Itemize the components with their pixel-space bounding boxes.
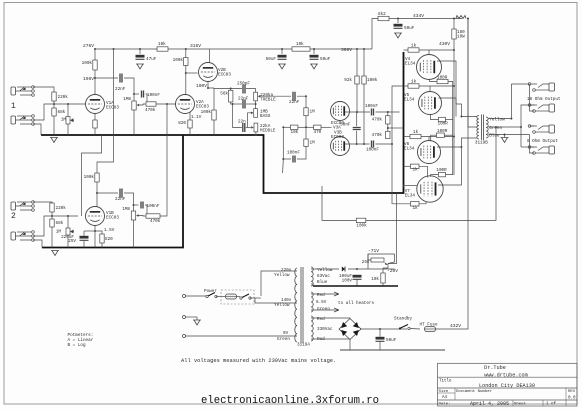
svg-text:470k: 470k (150, 219, 161, 224)
svg-text:25V: 25V (68, 239, 76, 244)
wire V6 cathode (431, 135, 437, 140)
svg-text:25k: 25k (362, 260, 370, 265)
wire screen to 1k V4 (419, 50, 429, 55)
wire ch2 grid to V1B (52, 215, 78, 217)
wire V2B out to tone stack (214, 88, 242, 90)
resistor 220k (52, 92, 68, 101)
wire rail 368V section (310, 48, 372, 50)
resistor 1M8 volume ch1 (123, 97, 136, 110)
wire 100k V2B to bus (213, 120, 215, 135)
svg-text:100V: 100V (196, 83, 207, 89)
wire 1k V4 right (429, 49, 454, 51)
wire 368V riser to 8k2 (372, 19, 378, 50)
resistor 1k V6 (410, 130, 421, 139)
wire 470 to V3 grid (321, 126, 332, 128)
wire 820 to bus (189, 128, 191, 135)
wire 10k bias to bus (382, 283, 384, 286)
wire V5 grid drive (392, 86, 408, 144)
svg-text:B = Log: B = Log (68, 343, 86, 348)
svg-text:10k: 10k (371, 277, 379, 282)
wire V1A plate resistor feed (94, 49, 96, 60)
wire 100R V6 return (444, 134, 452, 136)
wire 100nF to 470k ch1 (146, 94, 148, 104)
svg-text:Sheet: Sheet (514, 402, 526, 407)
wire 50uF cap feed a (281, 49, 283, 54)
wire V2B grid (186, 72, 198, 74)
svg-text:50nF: 50nF (340, 123, 351, 128)
bridge rectifier D1-D4 (339, 319, 361, 340)
wire V2A plate up (185, 66, 187, 95)
svg-text:www.drtube.com: www.drtube.com (484, 372, 528, 378)
svg-text:Green: Green (317, 307, 330, 312)
resistor 470k grid upper (372, 116, 390, 124)
pot 22kA MIDDLE (251, 123, 276, 133)
svg-text:1M: 1M (61, 118, 67, 123)
capacitor 100nF coupler lower (366, 141, 379, 153)
wire ch2 B+ drop (97, 49, 114, 173)
wire 100k drop (363, 49, 365, 76)
resistor 56k (220, 90, 233, 102)
wire bass wiper link (248, 113, 252, 128)
resistor 1k V5 (408, 80, 419, 89)
pot 1M grid (61, 117, 74, 125)
wire 100nF PI left (283, 158, 291, 160)
svg-text:220k: 220k (56, 206, 67, 211)
svg-text:1M8: 1M8 (122, 207, 130, 212)
wire 1M pot to bus (67, 124, 69, 135)
svg-text:10k: 10k (296, 42, 304, 47)
fuse mains (226, 294, 237, 299)
resistor 100R V7 (436, 168, 447, 177)
wire 25k left (368, 254, 371, 260)
wire HT 434V to 180R (453, 19, 455, 30)
capacitor 22nF ch1 (115, 74, 126, 93)
pot 1MB BASS (251, 109, 271, 119)
wire 1k V5 right (430, 85, 454, 87)
wire treble wiper to 22nF PI (260, 95, 291, 97)
svg-text:63Vac: 63Vac (317, 274, 330, 279)
svg-text:1M: 1M (310, 110, 316, 115)
svg-text:100k: 100k (201, 110, 212, 115)
wire 434V rail (389, 18, 462, 20)
wire V7 plate to OT (438, 147, 461, 185)
svg-text:1 of: 1 of (546, 402, 557, 407)
svg-text:100R: 100R (437, 129, 448, 134)
svg-text:432V: 432V (450, 323, 461, 329)
wire 22nF bass left (233, 103, 242, 105)
wire B+ rail 276V to 316V (95, 48, 157, 50)
svg-text:Standby: Standby (394, 317, 412, 322)
wire 10k bias wiring (382, 268, 384, 273)
svg-text:220k: 220k (58, 95, 69, 100)
svg-text:Yellow: Yellow (489, 117, 505, 122)
title block (438, 363, 578, 406)
pot 220kA TREBLE (254, 92, 276, 102)
capacitor 50uF (266, 55, 287, 62)
wire screen to 1k V6 (421, 137, 429, 141)
wire bridge out (360, 328, 407, 330)
wire treble bottom (255, 101, 257, 109)
svg-text:1k: 1k (413, 130, 419, 135)
wire grid V6 left (404, 136, 411, 138)
triode V1A ECC83 (86, 95, 105, 114)
wire ch1 jack sleeve to ground (33, 124, 41, 135)
mains terminal neutral (183, 335, 186, 338)
wire cathode node ch2 (84, 230, 95, 232)
pentode V6 EL34 (418, 141, 441, 164)
svg-text:316V: 316V (190, 43, 201, 49)
svg-text:100nF: 100nF (365, 104, 378, 109)
resistor 100k plate ch2 (84, 173, 100, 182)
capacitor 100uF bias (353, 275, 362, 280)
wire 820 ch2 wiring (95, 231, 102, 234)
pentode V7 EL34 (417, 176, 443, 202)
svg-text:8k2: 8k2 (378, 12, 386, 17)
wire jack link b (520, 127, 522, 147)
svg-text:68k: 68k (58, 110, 66, 115)
svg-text:1.1V: 1.1V (191, 115, 202, 120)
wire V4 cathode (430, 80, 438, 82)
svg-text:100nF: 100nF (287, 151, 300, 156)
svg-text:ECC83: ECC83 (331, 135, 344, 140)
capacitor 47uF (136, 55, 157, 62)
speaker jack 8 ohm a (528, 125, 554, 134)
svg-text:to all heaters: to all heaters (338, 301, 375, 306)
wire 470k upper stub (387, 112, 389, 116)
wire 63Vac bottom to bus (311, 284, 313, 286)
svg-text:EL34: EL34 (405, 194, 416, 199)
wire 22nF bass right (246, 103, 256, 105)
choke L1 (456, 16, 466, 19)
wire ch1 jack tips (33, 87, 54, 92)
capacitor 22n middle (238, 120, 246, 133)
fuse HT (425, 327, 436, 332)
wire 50uF HT wiring (379, 329, 381, 337)
svg-text:10W: 10W (457, 35, 465, 40)
resistor 92k (344, 76, 359, 84)
pot 1M ch2 (56, 228, 74, 235)
wire V7 cathode (431, 175, 439, 177)
svg-text:10k: 10k (291, 130, 299, 135)
resistor 10k bias (371, 273, 385, 283)
wire 100k ch2 to plate node (96, 182, 98, 207)
wire 100R V5 return (446, 119, 453, 121)
svg-text:100R: 100R (436, 168, 447, 173)
wire 470k midpoint to bus (388, 127, 404, 129)
ground bus channel 2 (42, 135, 183, 248)
triode V3B ECC83 (331, 137, 350, 156)
svg-text:8 Ohm Output: 8 Ohm Output (527, 139, 558, 144)
wire HT ground line (340, 349, 445, 351)
svg-text:470k: 470k (145, 108, 156, 113)
wire 220uF wiring (83, 231, 85, 236)
pentode V4 EL34 (417, 55, 442, 80)
svg-text:1M: 1M (310, 141, 316, 146)
wire rail 316V section (168, 48, 292, 50)
speaker jack 16 ohm b (528, 104, 554, 113)
svg-text:1.5V: 1.5V (104, 228, 115, 233)
wire tail down (282, 159, 285, 173)
wire volume wiper ch1 (139, 104, 146, 105)
wire secondary blue (489, 134, 530, 136)
wire 0V tap (184, 335, 297, 337)
wire pot to bus ch2 (67, 235, 69, 248)
wire 50nF bottom link (356, 131, 358, 144)
ground (278, 64, 286, 69)
resistor 470k ch2 (146, 214, 161, 224)
svg-text:1k: 1k (411, 80, 417, 85)
diode bias (342, 266, 345, 271)
resistor 100R V4 (437, 76, 448, 84)
svg-text:A4: A4 (442, 396, 448, 400)
wire 1M lower to 100nF (297, 146, 306, 159)
resistor 100k plate V2B (173, 58, 188, 66)
resistor 100k NFB (356, 218, 367, 228)
svg-text:100nF: 100nF (147, 93, 160, 98)
T2 secondary 6.5V winding (311, 292, 313, 312)
wire 25k to -20V (383, 264, 388, 269)
wire 92k to V3A plate node (356, 84, 358, 112)
svg-text:22nF: 22nF (115, 197, 126, 202)
wire V1B cathode (94, 226, 96, 248)
svg-text:16 Ohm Output: 16 Ohm Output (527, 97, 561, 102)
output transformer T1 secondary (486, 117, 488, 138)
svg-text:1: 1 (11, 102, 16, 111)
wire bridge neg to ground line (349, 339, 351, 350)
wire V3A plate (345, 111, 370, 113)
resistor 1k V7 grid (411, 202, 420, 211)
resistor 1M PI lower (304, 139, 315, 146)
resistor 1k V4 (408, 44, 419, 53)
svg-text:Power: Power (204, 289, 217, 294)
svg-text:EL34: EL34 (404, 98, 415, 103)
svg-text:0V: 0V (283, 331, 289, 336)
wire jack common b (521, 146, 534, 148)
switch mains 2 (240, 294, 251, 299)
resistor 1k V7 screen (411, 164, 420, 173)
wire 140V tap (255, 298, 297, 303)
wire 92k drop (356, 49, 358, 76)
svg-text:22nF: 22nF (289, 100, 300, 105)
wire 50uF HT gnd (379, 342, 381, 350)
wire V3B plate (345, 143, 370, 145)
svg-text:Title: Title (439, 379, 452, 384)
wire V6 plate to OT (437, 138, 477, 147)
pot wiper ch2 (136, 214, 139, 217)
wire V4 plate to OT (437, 61, 477, 117)
wire 56k top (230, 89, 232, 91)
svg-text:100k: 100k (173, 58, 184, 63)
triode V2B ECC83 (199, 63, 218, 82)
speaker jack 16 ohm a (528, 83, 554, 92)
wire standby to fuse (410, 328, 420, 331)
svg-text:1M8: 1M8 (123, 97, 131, 102)
svg-text:Red: Red (317, 337, 325, 342)
wire ch2 coupling (97, 192, 118, 194)
svg-text:100k: 100k (367, 78, 378, 83)
resistor 100R V6 (437, 129, 448, 137)
wire jack common a (521, 105, 534, 127)
ground (310, 64, 318, 69)
svg-text:430V: 430V (439, 41, 450, 47)
svg-text:Document Number: Document Number (456, 389, 493, 394)
svg-text:47uF: 47uF (146, 57, 157, 62)
resistor 1M PI upper (304, 108, 315, 116)
svg-text:-71V: -71V (368, 248, 379, 254)
wire ch2 jack2 to grid (33, 216, 52, 236)
wire jack link c (530, 135, 535, 154)
svg-text:0.0: 0.0 (568, 397, 576, 401)
resistor 1M8 volume ch2 (122, 207, 135, 220)
capacitor 250pF (237, 82, 250, 94)
wire ch2 grid node (51, 212, 53, 219)
wire OT center tap (468, 19, 477, 128)
triode V1B ECC83 (86, 207, 105, 226)
pot wiper ch1 (137, 104, 140, 107)
capacitor 22nF PI (289, 92, 300, 105)
wire earth drop (186, 316, 198, 318)
wire 100uF to bus (356, 280, 358, 287)
wire 8 ohm feed (530, 125, 535, 127)
wire heater arrows (311, 292, 339, 312)
wire screen bus (453, 39, 455, 175)
wire grid node to 100nF ch2 (134, 204, 139, 206)
svg-text:1M: 1M (56, 230, 62, 235)
resistor 470k ch1 (145, 102, 156, 113)
wire switch2 to primary (250, 297, 255, 299)
wire middle pot to bus (255, 132, 257, 135)
ground (51, 251, 59, 256)
svg-text:68k: 68k (56, 221, 64, 226)
wire pot to grid ch2 (67, 216, 69, 228)
wire ch1 68k to bus (53, 116, 55, 135)
wire ch1 grid node (53, 101, 55, 108)
svg-text:Yellow: Yellow (274, 303, 290, 308)
wire V2B plate (209, 49, 211, 63)
svg-text:1k: 1k (413, 168, 419, 173)
wire primary up (255, 297, 261, 299)
input jack J3 channel 2 hi (11, 201, 34, 212)
wire 100k to V3B plate node (363, 84, 365, 144)
wire V5 cathode (430, 115, 438, 120)
wire coupler upper to grids (376, 111, 400, 113)
wire 220V tap (261, 271, 297, 296)
switch standby (399, 325, 410, 330)
capacitor 50uF (394, 24, 415, 31)
wire V1A cathode to bus (94, 114, 96, 136)
wire 100k to plate node (94, 70, 96, 78)
wire 1k V7 grid to tube (419, 202, 426, 204)
resistor 820 ch1 (178, 120, 192, 128)
svg-text:3119B: 3119B (475, 141, 488, 146)
wire 1M pot to grid (67, 104, 69, 117)
wire 50nF top link (356, 112, 358, 126)
resistor 100k PI (362, 76, 378, 84)
wire V2B cathode to 100k (213, 88, 215, 110)
resistor 10k (292, 42, 310, 51)
svg-text:electronicaonline.3xforum.ro: electronicaonline.3xforum.ro (201, 395, 379, 407)
speaker jack 8 ohm b (528, 146, 554, 155)
wire ch1 jack2 to grid (33, 104, 54, 120)
svg-text:470: 470 (314, 130, 322, 135)
resistor 68k ch2 (50, 219, 64, 227)
ground (50, 138, 58, 143)
svg-text:BASS: BASS (260, 114, 271, 119)
resistor 470k grid lower (372, 131, 390, 138)
wire negative feedback (366, 127, 496, 220)
svg-text:100V: 100V (342, 279, 353, 284)
svg-text:100nF: 100nF (366, 148, 379, 153)
wire 50uF cap feed c (397, 19, 399, 24)
svg-text:Dr.Tube: Dr.Tube (484, 365, 506, 371)
svg-text:ECC83: ECC83 (196, 105, 209, 110)
wire ch1 coupling (95, 77, 118, 79)
wire 250pF to treble top (246, 89, 256, 93)
resistor 10k (157, 42, 168, 51)
wire 50uF cap feed b (313, 49, 315, 54)
wire secondary yellow (489, 84, 512, 119)
wire volume wiper ch2 (139, 215, 147, 218)
wire 10k to 470 (298, 126, 314, 128)
svg-text:100k: 100k (84, 175, 95, 180)
input jack J4 channel 2 lo (11, 231, 34, 242)
wire winding to bridge top (311, 318, 350, 319)
resistor 10k PI (291, 125, 299, 135)
wire 63Vac to diode (311, 268, 339, 270)
wire screen to 1k V7 (419, 166, 427, 177)
wire grid node to 100nF ch1 (134, 93, 139, 95)
wire 10k left link (283, 126, 290, 128)
resistor 100k V2B cathode (201, 110, 217, 120)
svg-text:50uF: 50uF (386, 338, 397, 343)
resistor 180 10W (452, 29, 456, 39)
svg-text:1k: 1k (413, 206, 419, 211)
ground (136, 64, 144, 69)
svg-text:Green: Green (277, 337, 290, 342)
svg-text:REV: REV (568, 390, 576, 394)
capacitor 50nF (340, 123, 361, 130)
wire V2B plate feed (185, 49, 187, 58)
svg-text:56k: 56k (220, 92, 228, 97)
wire 470k ch1 to V2A grid (156, 103, 176, 105)
svg-text:ECC83: ECC83 (106, 106, 119, 111)
switch power (206, 293, 217, 298)
wire 100R common (446, 82, 453, 175)
wire negative feedback left (322, 186, 356, 220)
wire 1M8 ch2 to bus (133, 220, 135, 248)
svg-text:100k: 100k (82, 61, 93, 66)
wire earth gnd (196, 317, 198, 320)
capacitor 100nF ch1 (142, 91, 161, 99)
capacitor 22nF ch2 (115, 189, 126, 203)
wire live to switch (186, 295, 207, 297)
svg-text:London City DEA130: London City DEA130 (479, 383, 535, 389)
wire V5 plate to OT (439, 98, 457, 117)
mains terminal earth (183, 316, 186, 319)
svg-text:2: 2 (11, 212, 16, 221)
svg-text:-20V: -20V (387, 268, 398, 274)
resistor 220k ch2 (50, 203, 66, 212)
svg-text:6.5V: 6.5V (316, 300, 327, 305)
wire 1k V7 left (404, 165, 411, 167)
svg-text:Yellow: Yellow (274, 273, 290, 278)
capacitor 100nF coupler upper (365, 104, 378, 116)
wire 1M upper to grid node (305, 116, 307, 128)
wire 47uF cap feed (139, 49, 141, 54)
ground bus channel 1 (41, 52, 404, 193)
resistor 100R V5 (438, 117, 449, 126)
wire 56k to middle cap (233, 104, 242, 128)
